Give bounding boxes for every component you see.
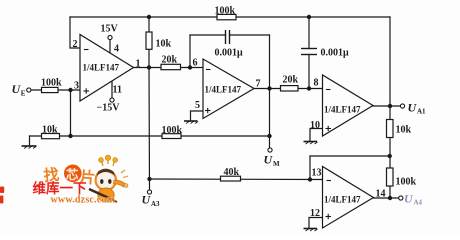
svg-text:100k: 100k xyxy=(215,6,236,17)
wire op1 pin11 stub xyxy=(111,81,113,98)
svg-text:0.001μ: 0.001μ xyxy=(215,48,244,59)
svg-text:6: 6 xyxy=(193,58,198,69)
wire op2 feedback down to output xyxy=(269,35,271,89)
node divider junction xyxy=(388,154,392,158)
ground G4 op4 xyxy=(304,229,318,232)
svg-text:1/4LF147: 1/4LF147 xyxy=(205,85,242,95)
op3 minus symbol xyxy=(326,89,331,91)
op-amp U2 (1/4LF147) xyxy=(203,59,254,119)
wire cap2 upper lead xyxy=(308,17,310,49)
svg-text:A4: A4 xyxy=(414,199,423,207)
node op4 pin13 junction xyxy=(308,177,312,181)
op4 minus symbol xyxy=(327,180,332,182)
svg-text:10k: 10k xyxy=(156,39,172,50)
svg-text:A1: A1 xyxy=(417,108,426,116)
red edge mark xyxy=(0,187,4,204)
node cap2 top junction xyxy=(307,15,311,19)
node 10k bottom-left junction xyxy=(68,134,72,138)
wire pin3 node down xyxy=(70,90,72,136)
svg-text:20k: 20k xyxy=(283,75,299,86)
op3 plus symbol xyxy=(326,126,332,131)
wire node2 to pin13 horizontal xyxy=(310,155,390,157)
svg-text:100k: 100k xyxy=(162,125,183,136)
node 10k top junction xyxy=(147,15,151,19)
op-amp U3 (1/4LF147) xyxy=(323,75,374,136)
wire op4 output to U_A4 xyxy=(374,197,400,199)
svg-text:100k: 100k xyxy=(41,78,62,89)
wire left feedback to op1 pin2 xyxy=(70,17,80,48)
node U_A1 junction xyxy=(388,104,392,108)
svg-text:1/4LF147: 1/4LF147 xyxy=(324,105,361,115)
svg-text:14: 14 xyxy=(376,189,386,200)
wire op2 feedback top left segment xyxy=(190,34,226,36)
ground G1 bottom-left xyxy=(22,146,37,149)
svg-text:3: 3 xyxy=(74,81,79,92)
svg-text:1/4LF147: 1/4LF147 xyxy=(83,63,120,73)
svg-text:10k: 10k xyxy=(396,125,412,136)
watermark dzsc logo xyxy=(0,155,128,205)
resistor 100k input xyxy=(42,87,59,92)
wire pin13 vertical xyxy=(309,156,311,180)
op-amp U1 (1/4LF147) xyxy=(80,35,134,102)
node U_M junction xyxy=(267,134,271,138)
svg-text:11: 11 xyxy=(113,85,122,96)
resistor 10k bottom-left xyxy=(42,134,60,139)
svg-text:10k: 10k xyxy=(42,125,58,136)
resistor 20k second xyxy=(281,86,299,91)
svg-text:E: E xyxy=(21,90,26,98)
wire op1 pin4 stub xyxy=(109,40,111,53)
wire ground1 stub xyxy=(29,136,31,146)
wire U_M branch down xyxy=(269,89,271,149)
wire right vertical chain x=390 xyxy=(389,17,391,198)
svg-text:U: U xyxy=(408,101,418,115)
svg-text:13: 13 xyxy=(312,168,322,179)
wire op3 pin10 to ground xyxy=(310,129,323,142)
wire 10k vertical branch x=149 xyxy=(148,17,150,68)
terminal U_E input xyxy=(27,88,31,92)
op-amp U4 (1/4LF147) xyxy=(323,167,374,229)
terminal U_M xyxy=(268,148,272,152)
resistor 10k vertical right xyxy=(387,120,394,138)
terminal 15V xyxy=(108,35,112,39)
op1 minus symbol xyxy=(84,49,89,51)
node pin3 junction xyxy=(68,88,72,92)
svg-text:U: U xyxy=(404,192,414,206)
svg-text:www.dzsc.com: www.dzsc.com xyxy=(51,195,116,206)
svg-text:15V: 15V xyxy=(101,24,119,35)
resistor 100k top xyxy=(217,14,236,19)
svg-text:A3: A3 xyxy=(151,200,160,208)
node U_A3 junction xyxy=(147,177,151,181)
wire op1 output to op2 pin6 xyxy=(134,67,204,69)
op2 minus symbol xyxy=(206,69,211,71)
node op4 out junction xyxy=(388,196,392,200)
terminal U_A1 xyxy=(400,104,404,108)
svg-text:1/4LF147: 1/4LF147 xyxy=(324,195,361,205)
node op2 out junction xyxy=(267,86,271,90)
terminal U_A3 xyxy=(147,190,151,194)
svg-text:40k: 40k xyxy=(224,167,240,178)
wire op1 output down to U_A3 xyxy=(148,68,151,191)
op2 plus symbol xyxy=(205,108,211,113)
svg-text:−15V: −15V xyxy=(97,103,121,114)
svg-text:M: M xyxy=(273,160,280,168)
wire op2 pin5 to ground xyxy=(191,111,204,121)
node op3 pin8 junction xyxy=(307,86,311,90)
svg-text:12: 12 xyxy=(310,208,320,219)
resistor 100k vertical right xyxy=(387,168,394,186)
svg-text:U: U xyxy=(264,153,274,167)
svg-text:1: 1 xyxy=(136,59,141,70)
node op1 out junction xyxy=(147,65,151,69)
svg-text:7: 7 xyxy=(256,79,261,90)
capacitor 0.001u first (plates) xyxy=(225,30,227,44)
svg-text:20k: 20k xyxy=(162,55,178,66)
svg-text:5: 5 xyxy=(195,100,200,111)
svg-text:4: 4 xyxy=(114,44,119,55)
svg-text:8: 8 xyxy=(314,78,319,89)
wire op3 output to U_A1 xyxy=(373,105,401,107)
resistor 40k xyxy=(221,176,241,181)
svg-text:芯: 芯 xyxy=(66,167,79,182)
wire bottom-left bus y=136 xyxy=(30,135,270,137)
svg-text:10: 10 xyxy=(310,120,320,131)
capacitor 0.001u second (plates) xyxy=(301,48,317,50)
wire op2 feedback top right segment xyxy=(230,34,270,36)
svg-text:2: 2 xyxy=(73,39,78,50)
node op2 pin6 junction xyxy=(188,65,192,69)
op1 plus symbol xyxy=(84,88,90,93)
svg-text:100k: 100k xyxy=(396,177,417,188)
wire top feedback bus y=17 xyxy=(70,16,390,18)
resistor 20k first xyxy=(161,64,181,69)
svg-text:U: U xyxy=(142,193,152,207)
terminal U_A4 xyxy=(399,196,403,200)
svg-text:0.001μ: 0.001μ xyxy=(321,48,350,59)
wire U_A3 node to op4 pin13 xyxy=(150,178,323,181)
wire op2 output to op3 pin8 xyxy=(254,88,323,90)
wire op4 pin12 to ground xyxy=(309,218,323,229)
resistor 100k middle xyxy=(162,134,181,139)
wire cap2 lower lead xyxy=(308,55,310,89)
ground G3 op3 xyxy=(304,142,318,145)
wire input to op1 pin3 xyxy=(31,89,80,91)
wire op2 feedback vertical x=190 xyxy=(189,35,191,68)
resistor 10k vertical top xyxy=(146,32,152,49)
ground G2 op2 xyxy=(184,121,198,124)
op4 plus symbol xyxy=(326,214,332,219)
terminal -15V xyxy=(110,98,114,102)
